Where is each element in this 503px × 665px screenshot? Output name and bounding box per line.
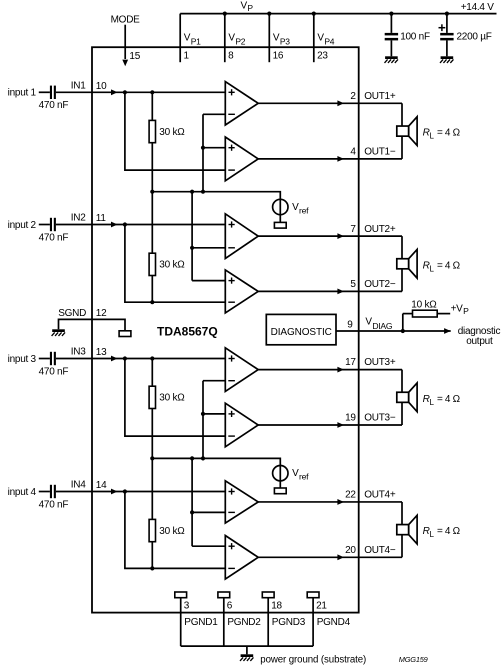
svg-text:7: 7 <box>350 224 356 235</box>
svg-text:OUT2−: OUT2− <box>364 279 396 290</box>
svg-text:14: 14 <box>96 480 107 491</box>
label diagnostic output <box>458 326 501 347</box>
pin 1 VP1 <box>180 14 201 63</box>
pin 16 VP3 <box>267 12 290 63</box>
svg-text:PGND4: PGND4 <box>317 617 351 628</box>
svg-text:VP1: VP1 <box>184 33 201 47</box>
op-amp A2 <box>225 137 258 181</box>
label MODE <box>111 14 141 25</box>
resistor R4 30 kOhm <box>149 458 185 568</box>
svg-text:30 kΩ: 30 kΩ <box>159 127 185 138</box>
label pin 9 VDIAG <box>347 316 393 331</box>
speaker RL3 4 Ohm <box>397 370 417 425</box>
svg-text:PGND3: PGND3 <box>272 617 306 628</box>
wire VDIAG pin 9 output <box>336 328 451 334</box>
svg-text:470 nF: 470 nF <box>39 366 69 377</box>
svg-text:10: 10 <box>96 81 107 92</box>
svg-text:VP2: VP2 <box>228 33 245 47</box>
resistor R2 30 kOhm <box>149 192 185 303</box>
svg-text:+14.4 V: +14.4 V <box>461 2 495 13</box>
resistor R1 30 kOhm <box>149 92 185 191</box>
label input 1 <box>8 88 37 99</box>
pin 11 IN2 labels <box>71 213 107 225</box>
label power ground (substrate) <box>260 655 366 665</box>
pin 23 VP4 <box>312 12 335 63</box>
svg-text:SGND: SGND <box>58 308 86 319</box>
svg-text:22: 22 <box>345 490 356 501</box>
wire A5 inverting / A6 non-inverting node <box>201 381 225 461</box>
wire output OUT3+ pin 17 <box>258 367 402 373</box>
ground power (substrate) <box>240 646 253 661</box>
wire IN3 to amplifier <box>56 356 225 362</box>
ground (2200 uF) <box>440 56 453 63</box>
label pin 22 OUT4+ <box>345 490 396 501</box>
pin 8 VP2 <box>223 12 246 63</box>
svg-text:2: 2 <box>350 91 356 102</box>
op-amp A8 <box>225 536 258 580</box>
pin 3 PGND1 <box>175 592 190 646</box>
svg-text:1: 1 <box>184 51 190 62</box>
current source Vref (lower) <box>273 466 288 489</box>
svg-text:TDA8567Q: TDA8567Q <box>157 325 218 339</box>
wire output OUT3- pin 19 <box>258 422 402 428</box>
svg-text:3: 3 <box>184 601 190 612</box>
wire MODE into pin 15 <box>122 25 128 66</box>
ground (100 nF) <box>385 56 398 63</box>
op-amp A3 <box>225 214 258 259</box>
svg-text:VDIAG: VDIAG <box>365 316 392 331</box>
svg-text:9: 9 <box>347 320 353 331</box>
pin 10 IN1 labels <box>71 80 107 92</box>
capacitor 470 nF (input 1) <box>39 86 69 112</box>
wire IN2 node to A4 inverting input <box>125 225 225 305</box>
svg-text:VP4: VP4 <box>317 33 334 47</box>
wire IN4 to amplifier <box>56 489 225 495</box>
wire IN2 to amplifier <box>56 222 225 228</box>
svg-text:18: 18 <box>271 601 282 612</box>
op-amp A7 <box>225 481 258 523</box>
label pin 20 OUT4- <box>345 545 396 556</box>
svg-text:RL = 4 Ω: RL = 4 Ω <box>423 128 461 141</box>
label PGND2 <box>227 617 261 628</box>
svg-text:IN4: IN4 <box>71 480 87 491</box>
capacitor 100 nF <box>385 12 430 57</box>
svg-text:11: 11 <box>96 213 107 224</box>
svg-text:30 kΩ: 30 kΩ <box>159 260 185 271</box>
svg-text:PGND2: PGND2 <box>227 617 261 628</box>
op-amp A1 <box>225 82 258 125</box>
svg-text:100 nF: 100 nF <box>400 32 430 43</box>
svg-text:20: 20 <box>345 545 356 556</box>
svg-text:17: 17 <box>345 357 356 368</box>
label RL = 4 Ohm (channel 4) <box>423 526 461 539</box>
wire IN4 node to A8 inverting input <box>125 492 225 571</box>
wire output OUT2+ pin 7 <box>258 233 402 239</box>
svg-text:MGG159: MGG159 <box>399 655 428 664</box>
svg-text:OUT4+: OUT4+ <box>364 490 396 501</box>
label pin 5 OUT2- <box>350 279 395 290</box>
op-amp A5 <box>225 348 258 392</box>
svg-text:VP3: VP3 <box>273 33 290 47</box>
pin 18 PGND3 <box>262 592 282 646</box>
label PGND4 <box>317 617 351 628</box>
wire IN1 node to A2 inverting input <box>125 92 225 170</box>
speaker RL1 4 Ohm <box>397 103 417 159</box>
svg-text:RL = 4 Ω: RL = 4 Ω <box>423 394 461 407</box>
wire IN1 to amplifier <box>56 89 225 95</box>
svg-text:6: 6 <box>227 601 233 612</box>
label PGND1 <box>184 617 218 628</box>
svg-text:8: 8 <box>228 51 234 62</box>
ground SGND <box>52 329 65 336</box>
svg-text:OUT3+: OUT3+ <box>364 357 396 368</box>
label pin 17 OUT3+ <box>345 357 396 368</box>
pin 6 PGND2 <box>218 592 233 646</box>
wire SGND <box>59 319 126 330</box>
svg-text:OUT2+: OUT2+ <box>364 224 396 235</box>
op-amp A4 <box>225 270 258 313</box>
svg-text:+VP: +VP <box>451 303 470 316</box>
svg-text:PGND1: PGND1 <box>184 617 218 628</box>
wire Vref bus (channels 3-4) <box>150 456 280 466</box>
svg-text:12: 12 <box>96 308 107 319</box>
capacitor 470 nF (input 4) <box>39 485 69 511</box>
svg-text:OUT3−: OUT3− <box>364 413 396 424</box>
capacitor 470 nF (input 3) <box>39 352 69 378</box>
wire A3 inverting / A4 non-inverting node <box>190 190 225 281</box>
svg-text:470 nF: 470 nF <box>39 100 69 111</box>
label pin 7 OUT2+ <box>350 224 395 235</box>
node VP label <box>241 0 254 13</box>
svg-text:VP: VP <box>241 0 254 13</box>
wire output OUT4- pin 20 <box>258 554 402 560</box>
wire A7 inverting / A8 non-inverting node <box>190 456 225 546</box>
label input 2 <box>8 220 37 231</box>
svg-text:input 1: input 1 <box>8 88 37 99</box>
capacitor 2200 uF <box>439 12 492 57</box>
label pin 4 OUT1- <box>350 147 395 158</box>
svg-text:output: output <box>466 336 493 347</box>
pin 21 PGND4 <box>307 592 327 646</box>
label TDA8567Q <box>157 325 218 339</box>
label input 3 <box>8 354 37 365</box>
svg-text:OUT1−: OUT1− <box>364 147 396 158</box>
svg-text:5: 5 <box>350 279 356 290</box>
label SGND pin 12 <box>58 308 107 319</box>
wire VP supply rail <box>180 13 496 15</box>
label Vref (upper) <box>292 202 309 216</box>
label RL = 4 Ohm (channel 2) <box>423 260 461 273</box>
op-amp A6 <box>225 403 258 447</box>
svg-text:10 kΩ: 10 kΩ <box>411 300 437 311</box>
pin 14 IN4 labels <box>71 480 107 492</box>
svg-text:30 kΩ: 30 kΩ <box>159 393 185 404</box>
wire power ground bus <box>181 645 313 647</box>
wire Vref bus (channels 1-2) <box>150 190 280 200</box>
label Vref (lower) <box>292 468 309 482</box>
resistor R5 10 kOhm pull-up <box>403 300 450 332</box>
svg-text:15: 15 <box>129 51 140 62</box>
label MGG159 <box>399 655 428 664</box>
svg-text:power ground (substrate): power ground (substrate) <box>260 655 366 665</box>
current source Vref (upper) <box>273 199 288 222</box>
capacitor 470 nF (input 2) <box>39 218 69 244</box>
svg-text:Vref: Vref <box>292 468 309 482</box>
svg-text:21: 21 <box>316 601 327 612</box>
svg-text:16: 16 <box>273 51 284 62</box>
svg-text:23: 23 <box>317 51 328 62</box>
svg-text:IN3: IN3 <box>71 347 87 358</box>
pad below Vref (lower) <box>274 488 286 494</box>
svg-text:input 4: input 4 <box>8 487 37 498</box>
label pin 19 OUT3- <box>345 413 396 424</box>
wire output OUT2- pin 5 <box>258 289 402 295</box>
svg-text:input 3: input 3 <box>8 354 37 365</box>
svg-text:IN1: IN1 <box>71 80 87 91</box>
label RL = 4 Ohm (channel 3) <box>423 394 461 407</box>
svg-text:19: 19 <box>345 413 356 424</box>
wire output OUT1- pin 4 <box>258 156 402 162</box>
svg-text:OUT4−: OUT4− <box>364 545 396 556</box>
label +14.4 V <box>461 2 495 13</box>
diagnostic block <box>266 314 336 344</box>
wire A1 inverting / A2 non-inverting node <box>201 114 225 193</box>
label RL = 4 Ohm (channel 1) <box>423 128 461 141</box>
speaker RL2 4 Ohm <box>397 236 417 291</box>
pad SGND (internal) <box>119 331 131 337</box>
svg-text:MODE: MODE <box>111 14 141 25</box>
wire IN3 node to A6 inverting input <box>125 359 225 437</box>
svg-text:RL = 4 Ω: RL = 4 Ω <box>423 526 461 539</box>
pad below Vref (upper) <box>274 222 286 228</box>
IC block TDA8567Q outline <box>92 47 359 612</box>
label input 4 <box>8 487 37 498</box>
svg-text:Vref: Vref <box>292 202 309 216</box>
svg-text:30 kΩ: 30 kΩ <box>159 526 185 537</box>
svg-text:OUT1+: OUT1+ <box>364 91 396 102</box>
svg-text:2200 µF: 2200 µF <box>457 32 492 43</box>
wire output OUT1+ pin 2 <box>258 100 402 106</box>
resistor R3 30 kOhm <box>149 359 185 459</box>
label PGND3 <box>272 617 306 628</box>
svg-text:IN2: IN2 <box>71 213 87 224</box>
wire output OUT4+ pin 22 <box>258 499 402 505</box>
speaker RL4 4 Ohm <box>397 502 417 557</box>
label pin 2 OUT1+ <box>350 91 395 102</box>
svg-text:13: 13 <box>96 347 107 358</box>
label +VP <box>451 303 470 316</box>
pin 15 label <box>129 51 140 62</box>
svg-text:4: 4 <box>350 147 356 158</box>
pin 13 IN3 labels <box>71 347 107 359</box>
svg-text:DIAGNOSTIC: DIAGNOSTIC <box>271 327 332 338</box>
svg-text:input 2: input 2 <box>8 220 37 231</box>
svg-text:470 nF: 470 nF <box>39 499 69 510</box>
svg-text:470 nF: 470 nF <box>39 232 69 243</box>
svg-text:RL = 4 Ω: RL = 4 Ω <box>423 260 461 273</box>
